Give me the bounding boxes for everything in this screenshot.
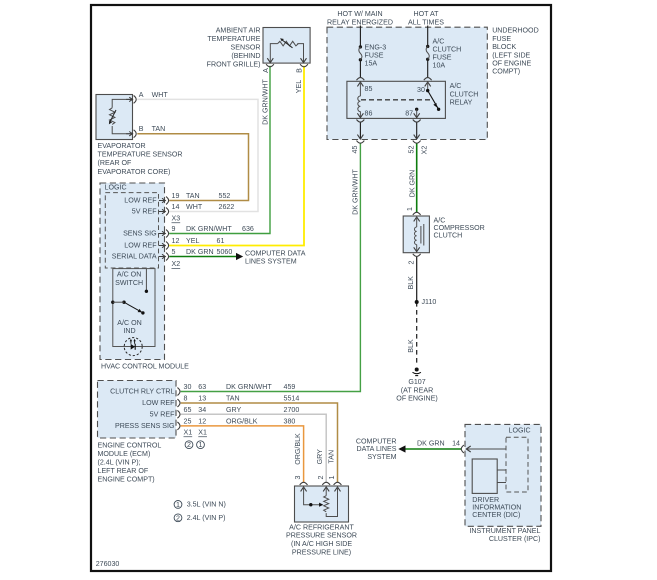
svg-text:2700: 2700 [284,406,300,414]
svg-text:2: 2 [317,475,325,479]
svg-text:19: 19 [172,192,180,200]
svg-text:2: 2 [187,441,191,449]
svg-text:A: A [262,68,270,73]
svg-text:8: 8 [184,395,188,403]
svg-text:ENG-3: ENG-3 [365,44,387,52]
svg-text:LINES SYSTEM: LINES SYSTEM [245,258,297,266]
svg-text:1: 1 [199,441,203,449]
svg-text:HVAC CONTROL MODULE: HVAC CONTROL MODULE [101,363,189,371]
svg-text:B: B [296,68,304,73]
svg-text:9: 9 [172,225,176,233]
svg-text:DK GRN: DK GRN [408,170,416,198]
svg-text:EVAPORATOR CORE): EVAPORATOR CORE) [98,168,171,176]
svg-text:X3: X3 [172,214,181,222]
svg-text:OF ENGINE): OF ENGINE) [396,395,437,403]
svg-text:10A: 10A [433,62,446,70]
svg-text:(AT REAR: (AT REAR [401,387,433,395]
svg-text:LOW REF: LOW REF [124,242,157,250]
svg-text:FUSE: FUSE [492,35,511,43]
svg-text:ALL TIMES: ALL TIMES [408,19,444,27]
svg-text:5V REF: 5V REF [132,208,158,216]
svg-text:61: 61 [217,237,225,245]
svg-text:12: 12 [198,418,206,426]
svg-text:14: 14 [452,439,460,447]
svg-text:TAN: TAN [186,192,200,200]
svg-text:COMPUTER DATA: COMPUTER DATA [245,249,306,257]
svg-text:5: 5 [172,248,176,256]
svg-text:85: 85 [365,85,373,93]
svg-text:636: 636 [242,225,254,233]
svg-text:WHT: WHT [186,203,203,211]
svg-text:TEMPERATURE: TEMPERATURE [207,35,260,43]
svg-text:CLUTCH: CLUTCH [450,90,479,98]
svg-text:TAN: TAN [152,125,166,133]
svg-text:LOGIC: LOGIC [105,183,127,191]
svg-text:LOW REF: LOW REF [142,399,175,407]
svg-text:BLK: BLK [407,276,415,290]
svg-text:3: 3 [294,475,302,479]
svg-text:PRESS SENS SIG: PRESS SENS SIG [115,422,175,430]
svg-text:BLOCK: BLOCK [492,43,516,51]
svg-text:DK GRN/WHT: DK GRN/WHT [186,225,232,233]
svg-text:(2.4L (VIN P);: (2.4L (VIN P); [98,459,141,467]
svg-text:J110: J110 [422,298,437,306]
svg-text:1: 1 [406,207,414,211]
svg-text:25: 25 [184,418,192,426]
svg-text:YEL: YEL [295,80,303,93]
svg-text:GRY: GRY [226,406,242,414]
svg-text:5060: 5060 [217,248,233,256]
svg-text:DK GRN: DK GRN [417,439,445,447]
svg-text:RELAY: RELAY [450,99,473,107]
svg-text:14: 14 [172,203,180,211]
svg-text:DK GRN: DK GRN [186,248,214,256]
svg-text:A: A [139,91,144,99]
svg-text:INSTRUMENT PANEL: INSTRUMENT PANEL [469,527,540,535]
svg-text:30: 30 [417,86,425,94]
svg-text:COMPT): COMPT) [492,68,520,76]
svg-text:15A: 15A [365,60,378,68]
svg-text:DATA LINES: DATA LINES [357,445,397,453]
svg-text:A/C: A/C [450,82,462,90]
svg-text:FRONT GRILLE): FRONT GRILLE) [207,61,261,69]
svg-text:63: 63 [198,383,206,391]
svg-text:EVAPORATOR: EVAPORATOR [98,142,146,150]
svg-text:86: 86 [365,109,373,117]
svg-text:X2: X2 [172,260,181,268]
svg-text:52: 52 [408,146,416,154]
svg-text:HOT W/ MAIN: HOT W/ MAIN [337,10,382,18]
svg-text:2: 2 [408,260,416,264]
svg-text:(IN A/C HIGH SIDE: (IN A/C HIGH SIDE [291,540,352,548]
svg-text:OF ENGINE: OF ENGINE [492,60,531,68]
svg-text:ORG/BLK: ORG/BLK [226,418,258,426]
svg-text:RELAY ENERGIZED: RELAY ENERGIZED [327,19,393,27]
svg-text:LOW REF: LOW REF [124,197,157,205]
svg-text:A/C: A/C [433,38,445,46]
svg-text:FUSE: FUSE [365,52,384,60]
svg-text:A/C ON: A/C ON [117,319,141,327]
svg-text:TEMPERATURE SENSOR: TEMPERATURE SENSOR [98,151,183,159]
svg-text:DK GRN/WHT: DK GRN/WHT [352,168,360,214]
svg-text:13: 13 [198,395,206,403]
svg-text:ORG/BLK: ORG/BLK [294,433,302,465]
svg-text:TAN: TAN [327,450,335,464]
svg-text:LEFT REAR OF: LEFT REAR OF [98,467,149,475]
svg-text:FUSE: FUSE [433,54,452,62]
svg-text:1: 1 [176,501,180,509]
svg-text:5V REF: 5V REF [150,410,176,418]
svg-text:SENSOR: SENSOR [231,44,261,52]
svg-text:WHT: WHT [152,91,169,99]
svg-text:A/C ON: A/C ON [117,270,141,278]
svg-text:AMBIENT AIR: AMBIENT AIR [216,26,261,34]
svg-text:3.5L (VIN N): 3.5L (VIN N) [187,500,226,508]
svg-text:ENGINE COMPT): ENGINE COMPT) [98,475,155,483]
svg-text:552: 552 [219,192,231,200]
svg-text:PRESSURE SENSOR: PRESSURE SENSOR [286,532,357,540]
svg-text:PRESSURE LINE): PRESSURE LINE) [292,549,351,557]
svg-text:SERIAL DATA: SERIAL DATA [112,253,157,261]
svg-text:CLUTCH: CLUTCH [433,46,462,54]
svg-text:(REAR OF: (REAR OF [98,159,133,167]
svg-text:DK GRN/WHT: DK GRN/WHT [226,383,272,391]
svg-text:12: 12 [172,237,180,245]
svg-text:380: 380 [284,418,296,426]
svg-text:SENS SIG: SENS SIG [123,230,157,238]
svg-text:2622: 2622 [219,203,235,211]
svg-text:SYSTEM: SYSTEM [367,453,396,461]
svg-text:TAN: TAN [226,395,240,403]
svg-text:1: 1 [328,475,336,479]
svg-text:2.4L (VIN P): 2.4L (VIN P) [187,514,226,522]
svg-text:B: B [139,125,144,133]
svg-text:X2: X2 [421,146,429,155]
svg-text:MODULE (ECM): MODULE (ECM) [98,450,151,458]
svg-text:UNDERHOOD: UNDERHOOD [492,27,539,35]
svg-text:CENTER (DIC): CENTER (DIC) [472,511,520,519]
svg-text:30: 30 [184,383,192,391]
svg-text:BLK: BLK [407,339,415,353]
svg-text:ENGINE CONTROL: ENGINE CONTROL [98,442,162,450]
svg-text:YEL: YEL [186,237,199,245]
svg-text:SWITCH: SWITCH [115,279,143,287]
svg-text:45: 45 [351,146,359,154]
svg-text:276030: 276030 [96,560,120,568]
svg-text:CLUTCH RLY CTRL: CLUTCH RLY CTRL [110,388,174,396]
svg-text:2: 2 [176,514,180,522]
svg-text:(BEHIND: (BEHIND [231,52,260,60]
svg-text:87: 87 [405,109,413,117]
svg-text:CLUTCH: CLUTCH [434,232,463,240]
svg-text:GRY: GRY [316,449,324,465]
svg-text:5514: 5514 [284,395,300,403]
svg-text:IND: IND [123,327,135,335]
svg-text:CLUSTER (IPC): CLUSTER (IPC) [489,535,541,543]
svg-text:(LEFT SIDE: (LEFT SIDE [492,51,530,59]
svg-text:DK GRN/WHT: DK GRN/WHT [261,78,269,124]
svg-text:459: 459 [284,383,296,391]
svg-text:G107: G107 [408,378,425,386]
svg-text:65: 65 [184,406,192,414]
svg-text:A/C REFRIGERANT: A/C REFRIGERANT [289,523,354,531]
svg-text:X1: X1 [184,428,193,436]
svg-text:34: 34 [198,406,206,414]
svg-text:X1: X1 [198,428,207,436]
svg-text:LOGIC: LOGIC [509,426,531,434]
svg-text:HOT AT: HOT AT [414,10,440,18]
